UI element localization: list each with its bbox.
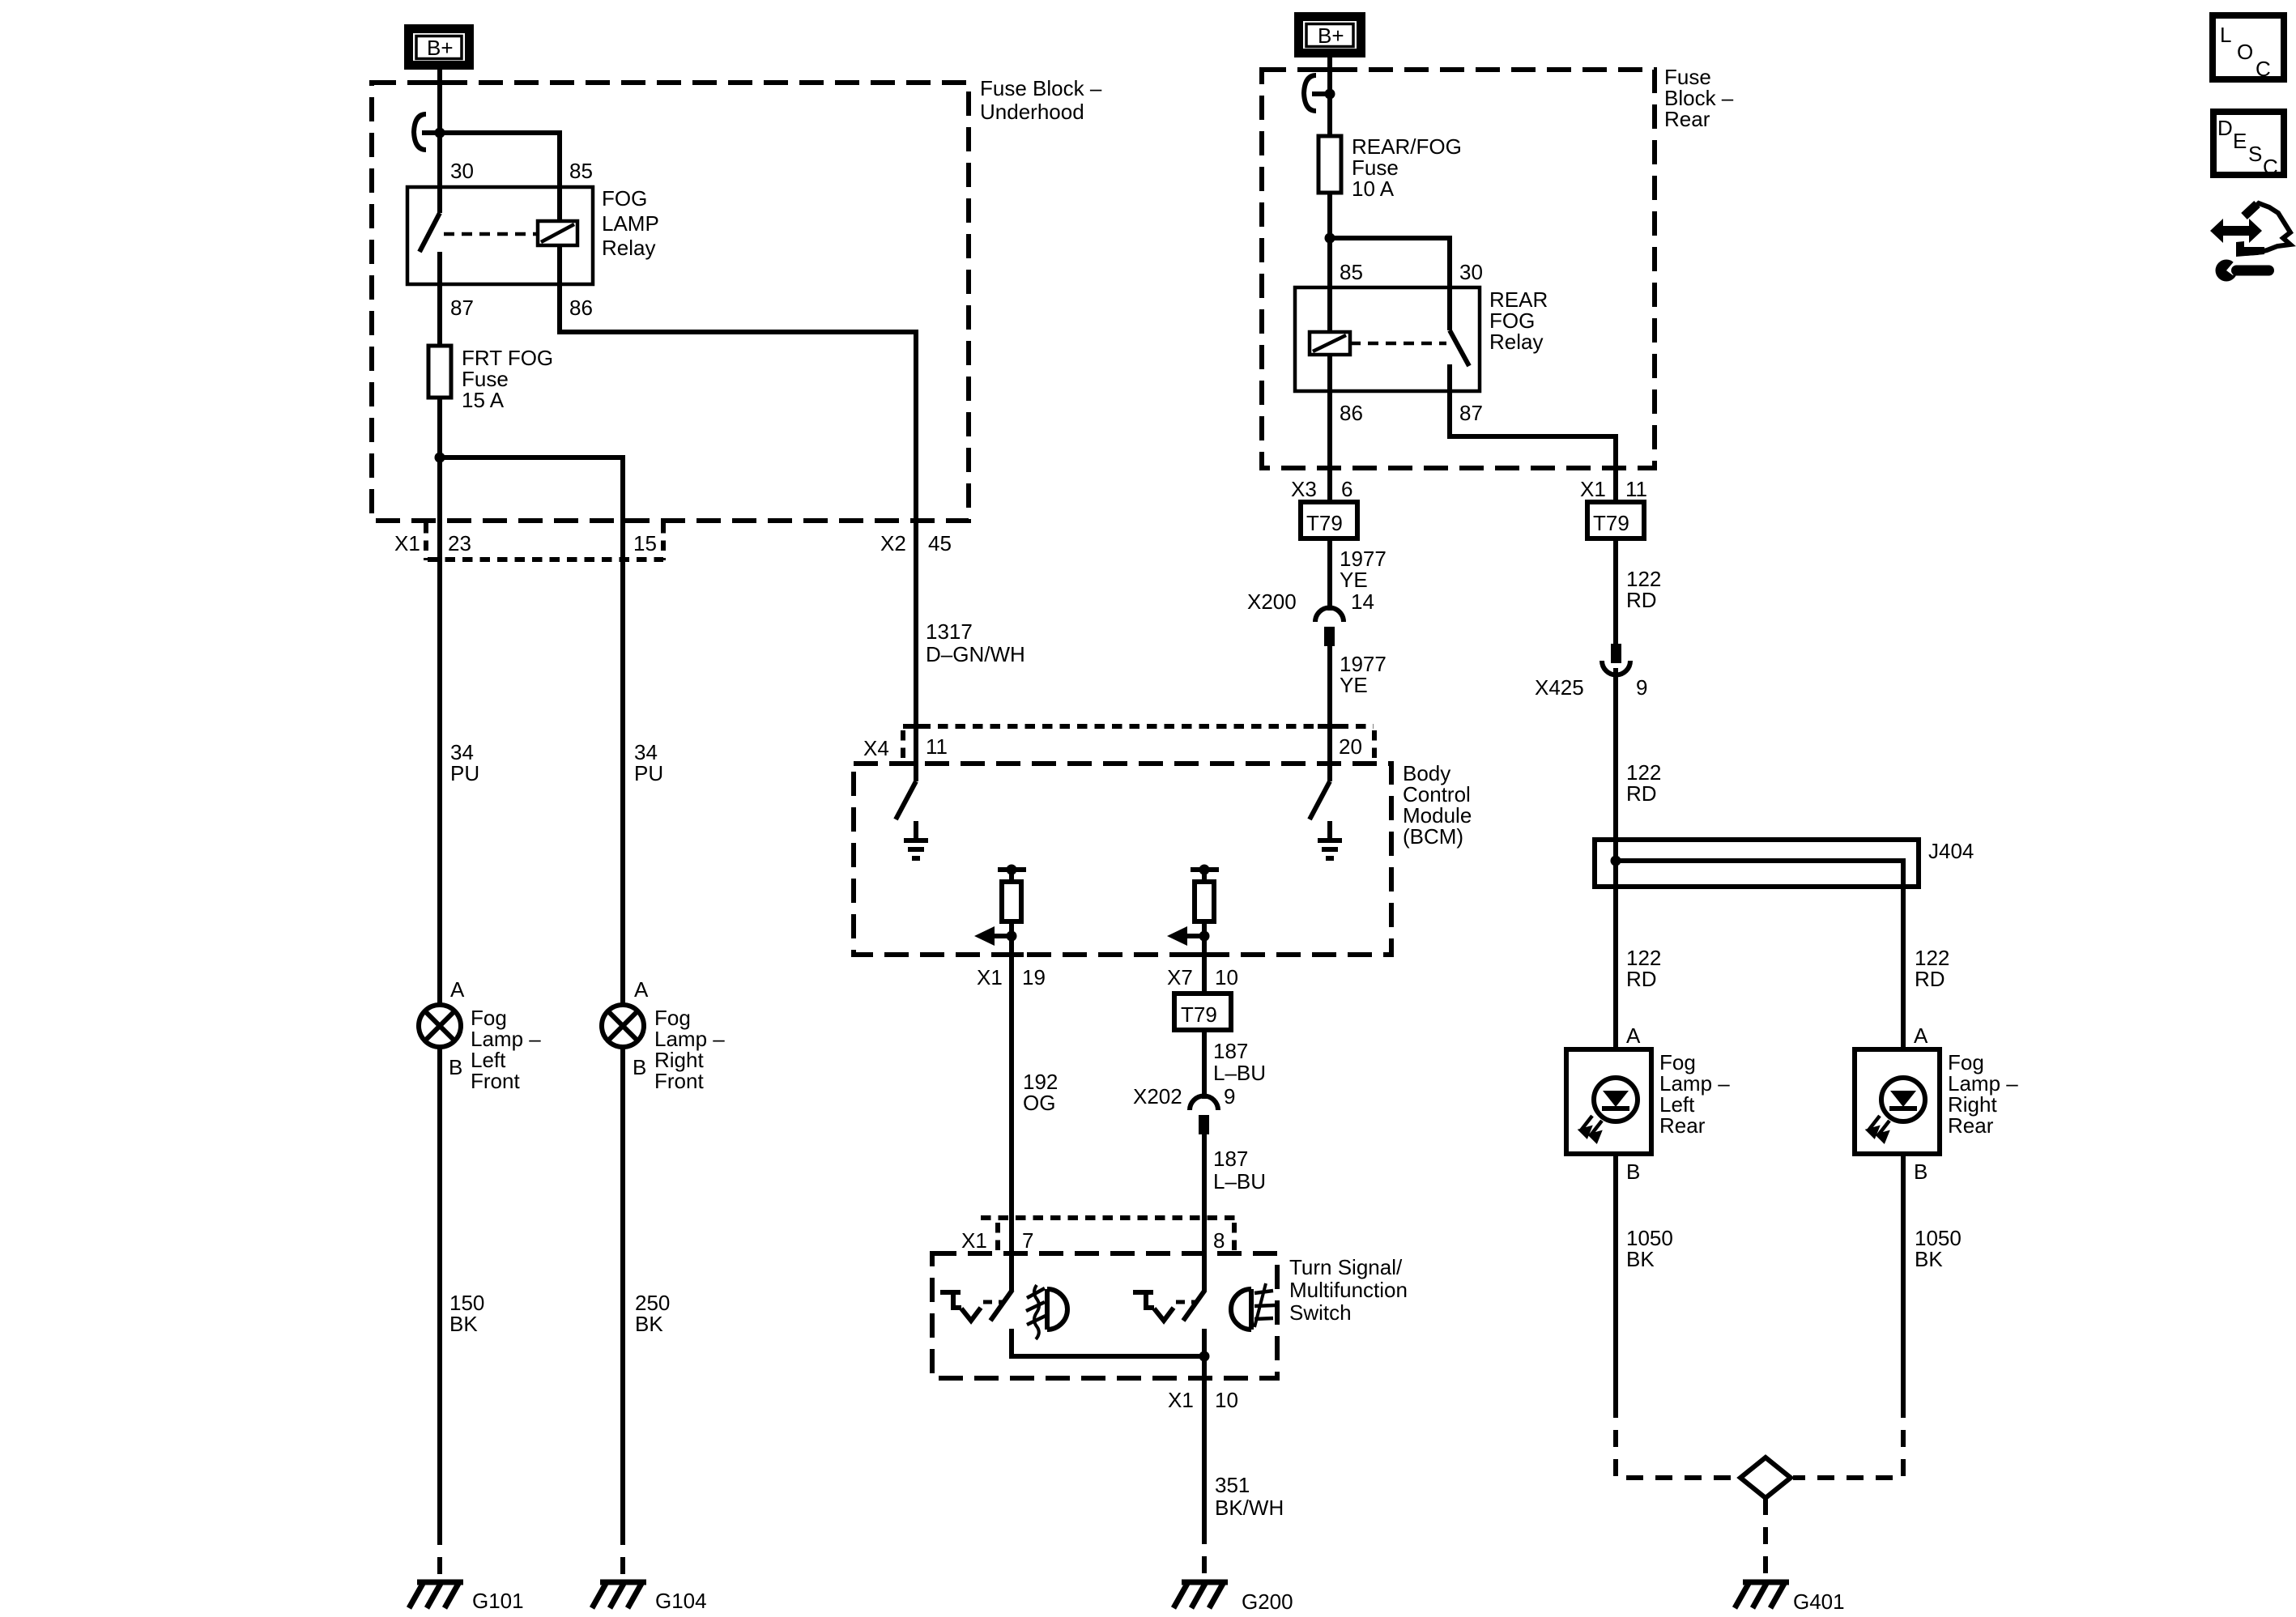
svg-text:Front: Front	[471, 1069, 520, 1093]
svg-text:B+: B+	[1318, 23, 1344, 48]
svg-text:23: 23	[448, 531, 471, 555]
wire label 192 OG	[1023, 1070, 1058, 1115]
svg-text:Rear: Rear	[1659, 1113, 1706, 1138]
wire fuse to relay pin 85	[1327, 193, 1332, 332]
ground wire dashed (right front)	[620, 1528, 625, 1581]
svg-text:187: 187	[1213, 1147, 1248, 1171]
fog lamp right front bulb	[602, 1005, 644, 1047]
wire label 122 RD (first)	[1626, 567, 1661, 612]
in-line connector X200 pin 14	[1315, 608, 1344, 647]
label Fog Lamp - Right Rear	[1948, 1050, 2018, 1138]
fog lamp left rear (LED)	[1566, 1049, 1651, 1154]
svg-text:Turn Signal/: Turn Signal/	[1289, 1255, 1403, 1279]
ground wire dashed (switch)	[1202, 1527, 1207, 1581]
svg-text:45: 45	[928, 531, 952, 555]
svg-text:9: 9	[1636, 675, 1647, 700]
svg-text:X202: X202	[1133, 1084, 1182, 1108]
splice pack T79 (X3 circuit)	[1301, 502, 1357, 538]
svg-text:10: 10	[1215, 1388, 1238, 1412]
label Fog Lamp - Right Front	[654, 1006, 725, 1093]
tick X4 crossing (pin 20 wire)	[1318, 724, 1342, 729]
relay switch blade	[420, 213, 440, 252]
svg-text:1317: 1317	[926, 619, 973, 644]
splice pack T79 (right circuit)	[1587, 502, 1644, 538]
front fog switch contact	[940, 1290, 1012, 1321]
junction node below fuse	[435, 453, 445, 463]
svg-text:L–BU: L–BU	[1213, 1061, 1266, 1085]
svg-text:S: S	[2248, 142, 2262, 166]
dashed wire right rear to splice	[1793, 1401, 1903, 1478]
svg-text:YE: YE	[1340, 568, 1368, 592]
svg-text:BK: BK	[635, 1312, 663, 1336]
svg-text:Fuse Block –: Fuse Block –	[980, 76, 1102, 100]
Turn Signal / Multifunction Switch dashed box	[932, 1253, 1277, 1378]
label Body Control Module (BCM)	[1403, 761, 1472, 849]
svg-text:OG: OG	[1023, 1091, 1055, 1115]
svg-text:X2: X2	[880, 531, 906, 555]
svg-text:X425: X425	[1535, 675, 1584, 700]
BCM driver switch (pin 11)	[896, 521, 916, 819]
svg-text:86: 86	[1340, 401, 1363, 425]
svg-text:Relay: Relay	[602, 236, 655, 260]
svg-text:87: 87	[1459, 401, 1483, 425]
svg-text:J404: J404	[1928, 839, 1974, 863]
rear relay coil stub to pin 86	[1327, 355, 1332, 468]
wire label 150 BK	[449, 1291, 484, 1336]
wire label 187 L-BU (upper)	[1213, 1039, 1266, 1085]
svg-text:9: 9	[1224, 1084, 1235, 1108]
wire branch to pin 15 output	[440, 457, 623, 1005]
wire jumper to relay pin 85	[440, 133, 560, 221]
svg-text:L–BU: L–BU	[1213, 1169, 1266, 1194]
wire B+ to relay pin 30	[437, 70, 442, 213]
svg-text:11: 11	[1625, 477, 1647, 501]
wire label 1317 D-GN/WH	[926, 619, 1025, 666]
label Fog Lamp - Left Front	[471, 1006, 541, 1093]
wire label 122 RD (left rear)	[1626, 946, 1661, 991]
svg-text:B: B	[1914, 1160, 1928, 1184]
BCM pull-up resistor (X7-10 input)	[1191, 865, 1219, 955]
svg-text:G101: G101	[472, 1589, 524, 1613]
wire label 351 BK/WH	[1215, 1473, 1284, 1520]
service icon panel outline	[2244, 203, 2290, 253]
ground G200	[1174, 1582, 1228, 1608]
fusible element (rear)	[1304, 75, 1335, 111]
svg-text:BK/WH: BK/WH	[1215, 1496, 1284, 1520]
Fuse Block - Rear dashed box	[1262, 70, 1655, 468]
label Turn Signal Multifunction Switch	[1289, 1255, 1408, 1325]
wire J404 branch to right rear lamp	[1616, 861, 1903, 1049]
svg-text:10: 10	[1215, 965, 1238, 989]
svg-text:85: 85	[1340, 260, 1363, 284]
wire switch common to X1-10	[1202, 1329, 1207, 1527]
svg-text:X1: X1	[394, 531, 420, 555]
ground G401	[1735, 1582, 1789, 1608]
svg-text:15 A: 15 A	[462, 388, 505, 412]
label Fuse Block - Underhood	[980, 76, 1102, 124]
tick BCM bottom crossing X7-10	[1192, 952, 1216, 957]
svg-text:Relay: Relay	[1489, 330, 1543, 354]
svg-text:T79: T79	[1306, 511, 1343, 535]
svg-text:Multifunction: Multifunction	[1289, 1278, 1408, 1302]
tick at box entry (rear)	[1318, 67, 1342, 72]
front fog lamp icon	[1026, 1285, 1067, 1339]
svg-text:X1: X1	[977, 965, 1003, 989]
label REAR FOG Relay	[1489, 287, 1548, 354]
battery feed B+ (rear)	[1299, 17, 1361, 53]
svg-text:PU: PU	[634, 761, 663, 785]
svg-text:11: 11	[926, 734, 948, 759]
svg-text:7: 7	[1022, 1228, 1033, 1253]
BCM internal ground (pin 11 driver)	[904, 821, 928, 858]
svg-text:14: 14	[1351, 589, 1374, 614]
service icon panel lower hook	[2236, 241, 2264, 257]
svg-text:A: A	[1626, 1023, 1641, 1048]
svg-text:B: B	[633, 1055, 646, 1079]
connector X4 dotted line	[903, 726, 1374, 761]
junction node at fusible element	[435, 128, 445, 138]
rear fog switch contact	[1133, 1290, 1205, 1321]
splice J404 box	[1595, 840, 1919, 887]
svg-text:G401: G401	[1793, 1589, 1845, 1614]
svg-text:30: 30	[1459, 260, 1483, 284]
svg-text:X1: X1	[1580, 477, 1606, 501]
wire label 1050 BK (right)	[1915, 1226, 1962, 1271]
rear relay coil box	[1310, 332, 1350, 355]
wire T79 to X425	[1613, 538, 1618, 644]
wire fuse to lamp left front	[437, 398, 442, 1005]
junction node at switch common	[1199, 1351, 1210, 1362]
svg-text:X200: X200	[1247, 589, 1297, 614]
svg-text:A: A	[1914, 1023, 1928, 1048]
fog lamp right rear (LED)	[1855, 1049, 1940, 1154]
relay coil box	[538, 221, 577, 245]
svg-text:FOG: FOG	[602, 186, 647, 211]
svg-text:A: A	[634, 977, 649, 1002]
wire label 34 PU (right)	[634, 740, 663, 785]
svg-text:Front: Front	[654, 1069, 704, 1093]
svg-text:B: B	[449, 1055, 462, 1079]
svg-text:X1: X1	[1168, 1388, 1194, 1412]
svg-text:PU: PU	[450, 761, 479, 785]
svg-text:X1: X1	[961, 1228, 987, 1253]
wire T79 to X200	[1327, 538, 1332, 611]
svg-text:YE: YE	[1340, 673, 1368, 697]
svg-text:C: C	[2256, 57, 2271, 81]
svg-text:19: 19	[1022, 965, 1046, 989]
svg-text:LAMP: LAMP	[602, 211, 659, 236]
tick at box entry	[428, 80, 452, 85]
svg-text:T79: T79	[1593, 511, 1629, 535]
wire label 1977 YE (lower)	[1340, 652, 1387, 697]
svg-text:C: C	[2263, 155, 2278, 179]
svg-text:BK: BK	[1915, 1247, 1943, 1271]
dashed wire left rear to splice	[1616, 1401, 1738, 1478]
wire X425 to J404	[1613, 668, 1618, 1049]
wire label 187 L-BU (lower)	[1213, 1147, 1266, 1194]
rear fog lamp icon	[1231, 1283, 1275, 1330]
svg-text:BK: BK	[1626, 1247, 1655, 1271]
junction node in J404	[1611, 856, 1621, 866]
BCM input arrow (X1-19)	[974, 926, 1017, 946]
Fuse Block - Underhood dashed box	[372, 83, 969, 521]
fusible element	[414, 114, 440, 150]
svg-text:D–GN/WH: D–GN/WH	[926, 642, 1025, 666]
BCM driver switch (pin 20)	[1310, 641, 1330, 819]
LOC legend box	[2213, 15, 2284, 81]
wire BCM X1-19 to switch pin 7	[1009, 955, 1014, 1291]
wire relay pin 86 to X2-45	[560, 245, 916, 521]
svg-text:15: 15	[633, 531, 657, 555]
relay pin 87 stub	[437, 252, 442, 346]
wire label 1977 YE (upper)	[1340, 547, 1387, 592]
wire X3-6 to T79	[1327, 468, 1332, 502]
svg-text:D: D	[2217, 116, 2233, 140]
label REAR/FOG Fuse 10 A	[1352, 134, 1462, 201]
rear relay coil link (dashed)	[1350, 342, 1446, 346]
relay K: FOG LAMP Relay box	[407, 187, 593, 284]
BCM internal ground (pin 20 driver)	[1318, 821, 1342, 858]
wire relay pin 87 to X1-11	[1450, 391, 1616, 468]
svg-text:Rear: Rear	[1664, 107, 1710, 131]
label Fuse Block - Rear	[1664, 65, 1734, 131]
svg-text:RD: RD	[1626, 967, 1657, 991]
wire label 250 BK	[635, 1291, 670, 1336]
svg-text:G104: G104	[655, 1589, 707, 1613]
svg-text:8: 8	[1213, 1228, 1225, 1253]
wire BCM X7-10 to T79	[1202, 955, 1207, 994]
svg-text:RD: RD	[1915, 967, 1945, 991]
wire label 122 RD (right rear)	[1915, 946, 1949, 991]
wire X202 to switch pin 8	[1202, 1134, 1207, 1291]
wire front fog switch to common	[1012, 1329, 1204, 1356]
relay label FOG LAMP Relay	[602, 186, 659, 260]
in-line connector X202 pin 9	[1190, 1096, 1218, 1135]
rear relay switch blade	[1450, 287, 1469, 391]
BCM pull-up resistor (X1-19 input)	[998, 865, 1026, 955]
svg-text:O: O	[2237, 40, 2253, 64]
fog lamp left front bulb	[419, 1005, 461, 1047]
svg-text:Underhood: Underhood	[980, 100, 1084, 124]
svg-text:10 A: 10 A	[1352, 177, 1395, 201]
wire label 1050 BK (left)	[1626, 1226, 1673, 1271]
svg-text:351: 351	[1215, 1473, 1250, 1497]
svg-text:G200: G200	[1242, 1589, 1293, 1614]
service icon wrench	[2216, 260, 2275, 282]
wire X1-11 to T79 (right)	[1613, 468, 1618, 502]
wire lamp left front to ground	[437, 1047, 442, 1528]
service icon double arrow	[2210, 219, 2262, 243]
connector X1 dotted line (switch)	[981, 1218, 1237, 1252]
ground G104	[592, 1582, 646, 1608]
wire T79 to X202	[1202, 1030, 1207, 1099]
wire lamp right front to ground	[620, 1047, 625, 1528]
svg-text:(BCM): (BCM)	[1403, 824, 1463, 849]
svg-text:Rear: Rear	[1948, 1113, 1994, 1138]
svg-text:T79: T79	[1181, 1002, 1217, 1027]
svg-text:30: 30	[450, 159, 474, 183]
wire jumper to relay pin 30	[1330, 238, 1450, 287]
Body Control Module dashed box	[854, 764, 1391, 955]
svg-text:20: 20	[1339, 734, 1362, 759]
svg-text:X3: X3	[1291, 477, 1317, 501]
svg-text:RD: RD	[1626, 781, 1657, 806]
wire lamp left rear down	[1613, 1154, 1618, 1401]
relay K: REAR FOG Relay box	[1295, 287, 1480, 391]
svg-text:85: 85	[569, 159, 593, 183]
ground G101	[409, 1582, 463, 1608]
svg-text:187: 187	[1213, 1039, 1248, 1063]
svg-text:B+: B+	[427, 36, 454, 60]
wire label 122 RD (second)	[1626, 760, 1661, 806]
junction node below rear fuse	[1325, 233, 1335, 244]
ground wire dashed (left)	[437, 1528, 442, 1581]
svg-text:A: A	[450, 977, 465, 1002]
tick BCM bottom crossing X1-19	[999, 952, 1024, 957]
in-line connector X425 pin 9	[1602, 644, 1630, 675]
battery feed B+ (underhood)	[409, 29, 470, 66]
svg-text:86: 86	[569, 296, 593, 320]
svg-text:RD: RD	[1626, 588, 1657, 612]
tick X4 crossing (pin 11 wire)	[904, 724, 928, 729]
svg-text:X7: X7	[1167, 965, 1193, 989]
fuse REAR/FOG 10 A	[1318, 136, 1341, 193]
svg-text:Switch: Switch	[1289, 1300, 1352, 1325]
DESC legend box	[2213, 112, 2284, 179]
wire label 34 PU (left)	[450, 740, 479, 785]
label Fog Lamp - Left Rear	[1659, 1050, 1730, 1138]
label FRT FOG Fuse 15 A	[462, 346, 553, 412]
wire lamp right rear down	[1901, 1154, 1906, 1401]
BCM input arrow (X7-10)	[1167, 926, 1210, 946]
relay coil link (dashed)	[444, 232, 538, 236]
svg-text:E: E	[2233, 129, 2247, 153]
connector X1 bracket (underhood)	[426, 523, 663, 560]
dashed wire splice to ground	[1763, 1498, 1768, 1581]
svg-text:6: 6	[1341, 477, 1352, 501]
svg-text:BK: BK	[449, 1312, 478, 1336]
wire B+ to REAR/FOG fuse	[1327, 53, 1332, 136]
fuse F: FRT FOG Fuse 15 A	[428, 346, 451, 398]
splice pack T79 (X7 circuit)	[1174, 994, 1231, 1030]
svg-text:B: B	[1626, 1160, 1640, 1184]
svg-text:87: 87	[450, 296, 474, 320]
splice diamond	[1740, 1457, 1791, 1498]
svg-text:L: L	[2220, 23, 2231, 47]
svg-text:X4: X4	[863, 736, 889, 760]
